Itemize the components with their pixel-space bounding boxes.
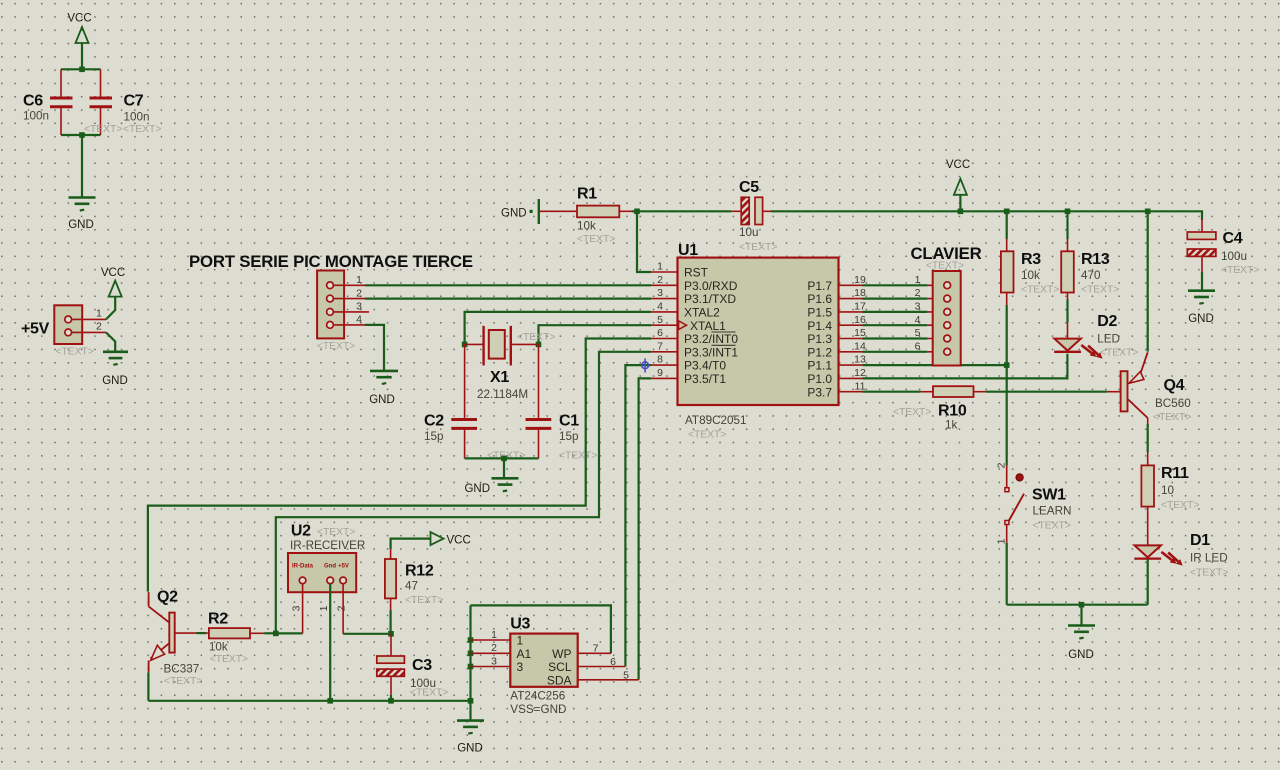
wire VCC rail (C5 to C4 corner) xyxy=(771,211,1202,220)
wire XTAL2 net (C2/X1 to U1 pin 4) xyxy=(465,312,651,345)
svg-text:AT24C256: AT24C256 xyxy=(510,690,565,703)
svg-text:100u: 100u xyxy=(1221,250,1247,263)
op-amp U3 AT24C256 body xyxy=(510,616,577,717)
node VCC rail / VCC terminal junction xyxy=(958,209,964,215)
wire P1.0 net (U1 pin12 to D2) xyxy=(863,354,1068,379)
diode D1 IR LED xyxy=(1134,532,1228,579)
node C6/C7 top junction xyxy=(79,67,85,73)
wire U3 left bus xyxy=(469,605,471,700)
svg-text:14: 14 xyxy=(854,340,866,352)
svg-text:<TEXT>: <TEXT> xyxy=(1153,412,1191,423)
svg-text:D2: D2 xyxy=(1097,313,1117,330)
svg-text:GND: GND xyxy=(1188,313,1214,325)
wire C6/C7 bottom rail xyxy=(61,134,101,136)
svg-text:GND: GND xyxy=(68,219,94,231)
node U3 pin2 junction xyxy=(468,651,474,657)
capacitor C1 xyxy=(526,413,598,462)
wire +5V pin 1 stub xyxy=(72,318,106,320)
svg-text:10u: 10u xyxy=(739,226,759,239)
svg-text:<TEXT>: <TEXT> xyxy=(405,595,443,606)
svg-text:VCC: VCC xyxy=(101,267,125,279)
svg-text:1: 1 xyxy=(356,274,362,286)
wire J1 pin 2 stub xyxy=(334,298,366,300)
node C6/C7 bottom junction xyxy=(79,132,85,138)
svg-text:<TEXT>: <TEXT> xyxy=(410,688,448,699)
wire U3 pin1 stub xyxy=(471,639,511,641)
svg-text:<TEXT>: <TEXT> xyxy=(317,341,355,352)
op-amp U1 AT89C2051 body xyxy=(651,242,863,441)
svg-text:1: 1 xyxy=(657,261,663,273)
wire C3 top stub xyxy=(390,634,392,656)
node C3 / bottom rail junction xyxy=(388,698,394,704)
svg-text:<TEXT>: <TEXT> xyxy=(1033,521,1071,532)
svg-text:SDA: SDA xyxy=(547,673,572,687)
svg-text:8: 8 xyxy=(657,354,663,366)
wire +5V pin 2 to ground xyxy=(106,332,115,351)
diode D2 LED xyxy=(1054,313,1138,359)
label U1 right pin names xyxy=(807,279,832,399)
svg-text:P3.3/INT1: P3.3/INT1 xyxy=(684,345,738,359)
svg-text:+5V: +5V xyxy=(21,321,50,338)
svg-text:3: 3 xyxy=(491,655,497,667)
ground (C4) xyxy=(1188,291,1215,325)
label U1 right pin numbers xyxy=(854,274,866,392)
wire C6/C7 top rail xyxy=(61,68,101,70)
svg-text:P3.1/TXD: P3.1/TXD xyxy=(684,292,736,306)
svg-text:GND: GND xyxy=(501,208,527,220)
svg-text:11: 11 xyxy=(855,380,866,392)
svg-text:1: 1 xyxy=(915,274,921,286)
wire R12 bottom xyxy=(390,598,392,633)
svg-text:<TEXT>: <TEXT> xyxy=(739,242,777,253)
node U3 ground junction xyxy=(468,698,474,704)
label +5V pin numbers xyxy=(96,308,102,333)
svg-text:17: 17 xyxy=(854,301,866,313)
label U2 pin numbers xyxy=(291,605,348,611)
node X1 right junction xyxy=(536,342,542,348)
wire U2 pin2 +5V down xyxy=(342,584,344,634)
svg-text:<TEXT>: <TEXT> xyxy=(1081,285,1119,296)
svg-text:3: 3 xyxy=(517,660,524,674)
wire X1 right stub xyxy=(511,343,538,345)
label U3 outside pin numbers xyxy=(491,629,629,682)
wire R1 to junction xyxy=(619,210,632,212)
wire C7 bottom stub xyxy=(100,107,102,135)
connector J1 PORT SERIE body xyxy=(317,271,355,353)
capacitor C7 xyxy=(90,93,150,124)
wire C3 bottom stub xyxy=(390,676,392,701)
wire R10 to Q4 base xyxy=(974,391,1108,393)
svg-text:R1: R1 xyxy=(577,186,597,203)
svg-text:12: 12 xyxy=(854,367,866,379)
wire J1 pin 4 to ground xyxy=(365,325,384,371)
wire +5V pin 1 to VCC xyxy=(106,297,115,320)
node R3 / P1.1 / SW1 junction xyxy=(1004,362,1010,368)
svg-text:LEARN: LEARN xyxy=(1033,505,1072,518)
svg-text:2: 2 xyxy=(96,321,102,333)
resistor R1 xyxy=(577,186,619,246)
svg-text:3: 3 xyxy=(915,301,921,313)
wire U3 WP loop xyxy=(471,605,611,653)
node bottom-right ground junction xyxy=(1079,602,1085,608)
capacitor C5 xyxy=(739,179,777,253)
wire CLAVIER wires (P1.7-P1.2) xyxy=(863,285,944,352)
wire SW1 bottom xyxy=(1006,525,1008,605)
svg-text:<TEXT>: <TEXT> xyxy=(123,124,161,135)
svg-text:18: 18 xyxy=(854,287,866,299)
resistor R13 xyxy=(1061,251,1119,296)
svg-text:47: 47 xyxy=(405,580,418,593)
capacitor C4 xyxy=(1187,230,1259,276)
wire Q4 base stub xyxy=(1107,391,1120,393)
svg-text:R12: R12 xyxy=(405,563,434,580)
svg-text:R3: R3 xyxy=(1021,251,1041,268)
wire R10 left stub xyxy=(921,391,934,393)
svg-text:<TEXT>: <TEXT> xyxy=(84,124,122,135)
svg-text:P3.2/INT0: P3.2/INT0 xyxy=(684,332,738,346)
wire XTAL1 net (C1/X1 to U1 pin 5) xyxy=(539,325,652,344)
wire J1 pin 3 stub (unconnected) xyxy=(334,311,370,313)
svg-text:1k: 1k xyxy=(945,419,958,432)
wire to ground (top-left) xyxy=(81,135,83,197)
svg-text:2: 2 xyxy=(356,287,362,299)
svg-text:VCC: VCC xyxy=(67,13,91,25)
svg-text:GND: GND xyxy=(464,483,490,495)
svg-text:C4: C4 xyxy=(1223,230,1243,247)
wire U1 pin8 P3.4 to U3 SCL xyxy=(625,365,651,666)
svg-text:Q2: Q2 xyxy=(157,589,178,606)
wire U1 pin9 P3.5 to U3 SDA xyxy=(639,378,651,679)
svg-text:U1: U1 xyxy=(678,242,698,259)
capacitor C2 xyxy=(424,413,525,462)
wire J1 pin 1 stub xyxy=(334,284,366,286)
crystal X1 xyxy=(477,326,555,401)
svg-text:Gnd: Gnd xyxy=(324,564,336,570)
svg-text:C5: C5 xyxy=(739,179,759,196)
svg-text:GND: GND xyxy=(457,743,483,755)
svg-text:LED: LED xyxy=(1097,333,1120,346)
svg-text:P3.5/T1: P3.5/T1 xyxy=(684,372,726,386)
svg-text:PORT SERIE PIC MONTAGE TIERCE: PORT SERIE PIC MONTAGE TIERCE xyxy=(189,252,473,271)
power VCC (IR supply) xyxy=(431,532,471,546)
label U1 left pin names xyxy=(684,266,738,386)
svg-text:2: 2 xyxy=(996,462,1008,468)
svg-text:VCC: VCC xyxy=(447,535,471,547)
label C6/C7 placeholder text xyxy=(84,124,161,135)
wire P3.7 net (U1 pin11 to R10) xyxy=(863,391,921,393)
svg-text:4: 4 xyxy=(657,301,663,313)
connector J +5V body xyxy=(21,305,94,357)
wire C5 right stub xyxy=(763,210,772,212)
power VCC (top-left) xyxy=(67,13,91,70)
wire U3 pin3 stub xyxy=(471,666,511,668)
svg-text:SW1: SW1 xyxy=(1032,487,1066,504)
wire R11 to D1 xyxy=(1147,507,1149,546)
svg-text:<TEXT>: <TEXT> xyxy=(1190,568,1228,579)
svg-text:Q4: Q4 xyxy=(1164,377,1185,394)
node R2 / IR-data junction xyxy=(273,631,279,637)
svg-text:R10: R10 xyxy=(938,403,967,420)
node U3 pin1 junction xyxy=(468,637,474,643)
svg-text:10k: 10k xyxy=(1021,269,1040,282)
svg-text:BC560: BC560 xyxy=(1155,397,1191,410)
capacitor C3 xyxy=(377,656,449,699)
wire C5 left stub xyxy=(731,210,741,212)
svg-text:R2: R2 xyxy=(208,611,228,628)
node VCC rail / R3 junction xyxy=(1004,209,1010,215)
svg-text:1: 1 xyxy=(318,605,330,611)
wire U3 SCL stub xyxy=(578,666,626,668)
svg-text:BC337: BC337 xyxy=(164,663,200,676)
svg-text:WP: WP xyxy=(552,647,571,661)
wire U3 pin2 stub xyxy=(471,652,511,654)
svg-text:<TEXT>: <TEXT> xyxy=(577,234,615,245)
label CLAVIER pin numbers xyxy=(915,274,921,353)
svg-text:XTAL2: XTAL2 xyxy=(684,306,720,320)
label PORT SERIE PIC MONTAGE TIERCE xyxy=(189,252,473,271)
wire U3 WP stub xyxy=(578,652,611,654)
wire Q4 collector to R11 xyxy=(1147,418,1149,465)
svg-text:9: 9 xyxy=(657,367,663,379)
svg-text:XTAL1: XTAL1 xyxy=(690,319,726,333)
wire GND terminal to R1 xyxy=(540,210,577,212)
svg-text:<TEXT>: <TEXT> xyxy=(317,527,355,538)
wire U2 pin1 Gnd down xyxy=(329,584,331,701)
svg-text:C3: C3 xyxy=(412,657,432,674)
svg-text:3: 3 xyxy=(657,287,663,299)
svg-text:3: 3 xyxy=(291,605,303,611)
ground (bottom-right) xyxy=(1068,626,1095,662)
node VCC rail / Q4 emitter junction xyxy=(1145,209,1151,215)
wire C4 top stub xyxy=(1201,219,1203,232)
svg-text:1: 1 xyxy=(491,629,497,641)
resistor R2 xyxy=(208,611,250,666)
ground (U3) xyxy=(457,721,484,755)
node R12 / C3 junction xyxy=(388,631,394,637)
wire U2 pin3 IR-Data down xyxy=(302,584,304,634)
svg-text:GND: GND xyxy=(369,394,395,406)
wire D1 to bottom rail xyxy=(1147,559,1149,604)
svg-text:GND: GND xyxy=(1068,649,1094,661)
svg-text:P1.6: P1.6 xyxy=(807,292,832,306)
svg-text:P1.7: P1.7 xyxy=(807,279,832,293)
node VCC rail / R13 junction xyxy=(1065,209,1071,215)
svg-text:15p: 15p xyxy=(424,430,444,443)
resistor R3 xyxy=(1001,251,1059,296)
svg-text:10k: 10k xyxy=(577,220,596,233)
wire R2 junction to U2 pin3 xyxy=(276,632,303,634)
svg-text:6: 6 xyxy=(657,327,663,339)
svg-text:SCL: SCL xyxy=(548,660,572,674)
wire Q2 base stub xyxy=(175,632,209,634)
node U3 pin3 junction xyxy=(468,664,474,670)
wire +5V pin 2 stub xyxy=(72,331,106,333)
wire R12 top to VCC xyxy=(391,539,431,559)
wire U3 SDA stub xyxy=(578,679,639,681)
svg-text:16: 16 xyxy=(854,314,866,326)
svg-text:5: 5 xyxy=(915,327,921,339)
svg-text:5: 5 xyxy=(623,670,629,682)
svg-text:P1.5: P1.5 xyxy=(807,306,832,320)
connector U2 IR-RECEIVER body xyxy=(288,523,365,593)
transistor Q4 BC560 xyxy=(1121,352,1192,423)
svg-text:AT89C2051: AT89C2051 xyxy=(685,414,747,427)
wire C1 top stub xyxy=(538,344,540,418)
wire VCC rail (R1 node to C5) xyxy=(632,210,731,212)
ground (crystal) xyxy=(464,478,518,495)
svg-text:<TEXT>: <TEXT> xyxy=(1221,265,1259,276)
wire J1 pin 1 to U1 P3.0 xyxy=(365,284,651,286)
wire bottom rail (SW1 to D1) xyxy=(1007,604,1148,606)
wire C1 bottom stub xyxy=(538,428,540,458)
svg-text:13: 13 xyxy=(854,354,866,366)
wire X1 left stub xyxy=(465,343,484,345)
svg-text:VSS=GND: VSS=GND xyxy=(510,703,566,716)
wire R13 top xyxy=(1066,211,1068,251)
svg-text:P1.3: P1.3 xyxy=(807,332,832,346)
svg-text:P1.1: P1.1 xyxy=(807,359,832,373)
transistor Q2 BC337 xyxy=(149,589,203,688)
svg-text:5: 5 xyxy=(657,314,663,326)
svg-text:+5V: +5V xyxy=(338,564,349,570)
wire C2 top stub xyxy=(464,344,466,418)
wire Q2 emitter to bottom rail xyxy=(147,672,149,701)
svg-text:U3: U3 xyxy=(510,616,530,633)
wire to ground (crystal) xyxy=(503,458,505,477)
svg-text:470: 470 xyxy=(1081,269,1101,282)
svg-text:C7: C7 xyxy=(124,93,144,110)
svg-text:2: 2 xyxy=(491,642,497,654)
node X1 left junction xyxy=(462,342,468,348)
svg-text:19: 19 xyxy=(854,274,866,286)
svg-text:R13: R13 xyxy=(1081,251,1110,268)
connector CLAVIER body xyxy=(910,244,981,366)
svg-text:<TEXT>: <TEXT> xyxy=(926,261,964,272)
svg-text:P1.0: P1.0 xyxy=(807,372,832,386)
label SW1 pin numbers xyxy=(996,462,1008,544)
svg-text:100n: 100n xyxy=(23,110,49,123)
node crystal ground junction xyxy=(501,456,507,462)
svg-text:P3.4/T0: P3.4/T0 xyxy=(684,359,726,373)
svg-text:10k: 10k xyxy=(209,641,228,654)
svg-text:IR-RECEIVER: IR-RECEIVER xyxy=(290,539,365,552)
resistor R10 xyxy=(893,386,974,431)
ground (top-left) xyxy=(68,198,95,232)
svg-text:15p: 15p xyxy=(559,430,579,443)
svg-text:X1: X1 xyxy=(490,369,509,386)
svg-text:GND: GND xyxy=(102,375,128,387)
svg-text:<TEXT>: <TEXT> xyxy=(210,654,248,665)
svg-text:100n: 100n xyxy=(124,111,150,124)
svg-text:IR-Data: IR-Data xyxy=(292,564,314,570)
wire C7 top stub xyxy=(100,69,102,96)
ground terminal (left of R1) xyxy=(501,199,539,224)
svg-text:2: 2 xyxy=(657,274,663,286)
capacitor C6 xyxy=(23,93,73,123)
wire C2/C1 bottom rail xyxy=(465,457,539,459)
svg-text:1: 1 xyxy=(96,308,102,320)
svg-text:P1.4: P1.4 xyxy=(807,319,832,333)
svg-text:6: 6 xyxy=(915,340,921,352)
svg-text:RST: RST xyxy=(684,266,709,280)
svg-text:4: 4 xyxy=(915,314,921,326)
svg-text:2: 2 xyxy=(915,287,921,299)
svg-text:7: 7 xyxy=(657,340,663,352)
svg-text:<TEXT>: <TEXT> xyxy=(164,676,202,687)
svg-text:1: 1 xyxy=(517,634,524,648)
svg-text:15: 15 xyxy=(854,327,866,339)
wire to ground (bottom-right) xyxy=(1080,605,1082,625)
wire R3 top xyxy=(1006,211,1008,251)
wire U1 pin7 P3.3 to R2/IR junction xyxy=(276,352,651,634)
svg-text:R11: R11 xyxy=(1161,465,1189,482)
power VCC (+5V connector) xyxy=(101,267,125,297)
svg-text:<TEXT>: <TEXT> xyxy=(56,347,94,358)
svg-text:<TEXT>: <TEXT> xyxy=(1161,500,1199,511)
svg-text:2: 2 xyxy=(336,605,348,611)
svg-text:<TEXT>: <TEXT> xyxy=(688,430,726,441)
marker no-ERC (blue) on P3.4 wire xyxy=(642,359,649,373)
wire U1 pin6 P3.2 to Q2 collector xyxy=(148,339,651,592)
svg-text:P3.0/RXD: P3.0/RXD xyxy=(684,279,738,293)
wire R2 right stub xyxy=(250,632,276,634)
svg-text:P1.2: P1.2 xyxy=(807,345,832,359)
svg-text:A1: A1 xyxy=(517,647,532,661)
resistor R11 xyxy=(1141,465,1199,511)
svg-text:<TEXT>: <TEXT> xyxy=(559,451,597,462)
wire J1 pin 4 stub xyxy=(334,324,366,326)
wire C4 bottom xyxy=(1201,256,1203,290)
svg-text:7: 7 xyxy=(593,643,599,655)
svg-text:IR LED: IR LED xyxy=(1190,552,1228,565)
label U3 pin names xyxy=(517,634,572,688)
power VCC (top rail) xyxy=(946,159,970,211)
wire SW1 top xyxy=(1006,365,1008,487)
wire C6 top stub xyxy=(60,69,62,96)
svg-text:<TEXT>: <TEXT> xyxy=(1100,348,1138,359)
wire U2 +5V to R12 node xyxy=(343,633,391,635)
svg-text:VCC: VCC xyxy=(946,159,970,171)
label U1 left pin numbers xyxy=(657,261,663,379)
svg-text:C6: C6 xyxy=(23,93,43,110)
resistor R12 xyxy=(385,559,443,606)
wire C6 bottom stub xyxy=(60,107,62,135)
ground (J1 pin 4) xyxy=(369,371,398,406)
svg-text:C2: C2 xyxy=(424,413,444,430)
svg-text:6: 6 xyxy=(610,656,616,668)
wire J1 pin 2 to U1 P3.1 xyxy=(365,298,651,300)
wire R3 bottom to P1.1 node xyxy=(1006,293,1008,366)
svg-text:<TEXT>: <TEXT> xyxy=(1021,285,1059,296)
ground (+5V connector) xyxy=(102,352,128,387)
svg-text:P3.7: P3.7 xyxy=(807,385,832,399)
svg-text:10: 10 xyxy=(1161,484,1175,497)
switch SW1 xyxy=(1005,474,1072,532)
label J1 pin numbers xyxy=(356,274,362,326)
svg-text:3: 3 xyxy=(356,301,362,313)
svg-text:22.1184M: 22.1184M xyxy=(477,388,528,401)
wire P1.1 net (U1 pin13 to R3/SW1) xyxy=(863,364,1007,366)
node VCC rail / R1-RST junction xyxy=(634,209,640,215)
wire C2 bottom stub xyxy=(464,428,466,458)
node U2 Gnd / bottom rail junction xyxy=(327,698,333,704)
svg-text:U2: U2 xyxy=(291,523,311,540)
wire bottom ground rail xyxy=(148,700,470,702)
svg-text:4: 4 xyxy=(356,314,362,326)
wire RST net (junction down to U1 pin 1) xyxy=(637,211,651,272)
wire U3 to ground xyxy=(469,701,471,720)
wire Q4 emitter from VCC rail xyxy=(1147,211,1149,351)
